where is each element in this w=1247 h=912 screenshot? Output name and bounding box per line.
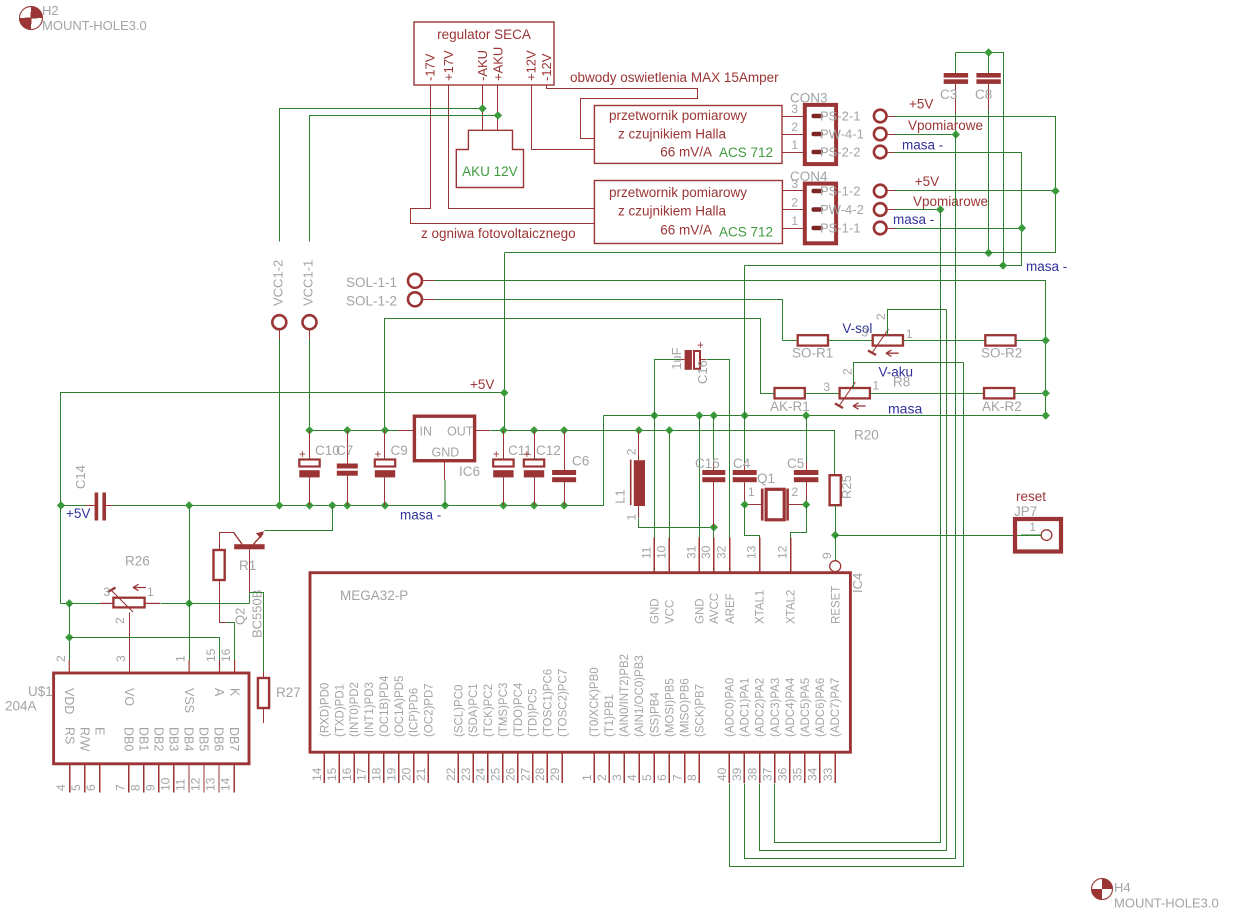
svg-text:24: 24 <box>474 767 488 781</box>
wire SO-R1 left <box>782 340 797 342</box>
svg-text:C5: C5 <box>787 456 804 471</box>
voltage regulator IC6 <box>414 416 474 461</box>
wire ADC0 net <box>775 210 941 843</box>
capacitor C9 <box>375 430 408 505</box>
svg-text:(ADC1)PA1: (ADC1)PA1 <box>740 678 752 737</box>
svg-text:(INT1)PD3: (INT1)PD3 <box>364 682 376 737</box>
MEGA32 pin 5 (SS)PB4 <box>640 692 661 784</box>
U$1 pin 13 DB6 <box>204 727 226 792</box>
svg-text:(AIN0/INT2)PB2: (AIN0/INT2)PB2 <box>619 654 631 737</box>
svg-text:3: 3 <box>610 774 624 781</box>
pad PS-1-1 <box>874 222 887 235</box>
wire +5V CON3 <box>505 117 1056 253</box>
svg-text:5: 5 <box>640 774 654 781</box>
wire V-aku to AK-R2 <box>870 393 984 395</box>
svg-text:(OC1B)PD4: (OC1B)PD4 <box>379 675 391 737</box>
svg-text:1: 1 <box>791 214 798 228</box>
MEGA32 pin 8 (SCK)PB7 <box>685 684 706 783</box>
svg-text:16: 16 <box>340 767 354 781</box>
svg-text:C9: C9 <box>391 443 408 458</box>
svg-text:+: + <box>524 449 531 461</box>
svg-text:1: 1 <box>791 138 798 152</box>
U$1 pin 3 VO <box>114 655 136 706</box>
junction rail C7 <box>343 426 351 434</box>
svg-text:K: K <box>227 688 241 697</box>
svg-text:GND: GND <box>432 446 460 460</box>
wire VDD column <box>69 603 71 660</box>
MEGA32 pin 37 (ADC3)PA3 <box>760 678 781 783</box>
MEGA32 pin 4 (AIN1/OC0)PB3 <box>625 655 646 783</box>
resistor AK-R1 <box>775 388 805 398</box>
svg-text:8: 8 <box>128 784 142 791</box>
svg-text:+AKU: +AKU <box>490 47 505 81</box>
junction rail C12 <box>530 426 538 434</box>
svg-text:AK-R2: AK-R2 <box>982 399 1022 414</box>
svg-text:29: 29 <box>548 767 562 781</box>
U$1 pin 7 DB0 <box>113 727 135 792</box>
MEGA32 pin 25 (TMS)PC3 <box>489 683 510 784</box>
svg-text:13: 13 <box>745 545 759 559</box>
svg-text:22: 22 <box>444 767 458 781</box>
svg-text:(TCK)PC2: (TCK)PC2 <box>483 684 495 737</box>
svg-text:4: 4 <box>625 774 639 781</box>
svg-text:+: + <box>375 449 382 461</box>
svg-text:IC4: IC4 <box>850 573 865 593</box>
pin numbers 3 2 1 (CON3) <box>791 102 798 152</box>
junction R26 left <box>65 599 73 607</box>
MEGA32 pin 15 (TXD)PD1 <box>325 684 346 783</box>
connector CON3 <box>805 105 836 164</box>
svg-text:3: 3 <box>114 655 128 662</box>
trimmer R26 <box>108 584 146 612</box>
junction rail C11 <box>499 426 507 434</box>
svg-text:+: + <box>493 449 500 461</box>
svg-text:AK-R1: AK-R1 <box>770 399 810 414</box>
svg-text:(T1)PB1: (T1)PB1 <box>604 694 616 737</box>
hall sensor box 1 <box>594 106 782 164</box>
wire R26 wiper to pin3 U1 <box>129 613 131 674</box>
MEGA32 pin 35 (ADC5)PA5 <box>791 678 812 783</box>
svg-text:(ADC7)PA7: (ADC7)PA7 <box>830 678 842 737</box>
junction Vpomiarowe CON4 <box>936 205 944 213</box>
svg-text:RS: RS <box>62 727 76 744</box>
svg-text:C15: C15 <box>695 456 720 471</box>
wire C14 left <box>61 505 86 507</box>
resistor AK-R2 <box>984 388 1014 398</box>
junction masa CON4 <box>1018 224 1026 232</box>
wire +5V left line <box>61 393 505 604</box>
wire SOL-1-1 net <box>435 281 1046 416</box>
junction VDD branch <box>65 633 73 641</box>
wire AK-R1 left <box>761 341 775 394</box>
inductor L1 <box>613 430 646 520</box>
svg-text:66 mV/A: 66 mV/A <box>660 223 712 238</box>
svg-text:(T0/XCK)PB0: (T0/XCK)PB0 <box>589 667 601 737</box>
wire +5V out rail <box>491 431 835 476</box>
junction C14 +5V <box>57 501 65 509</box>
svg-text:DB3: DB3 <box>167 727 181 751</box>
svg-text:3: 3 <box>103 585 110 599</box>
svg-text:9: 9 <box>143 784 157 791</box>
MEGA32 pin 3 (AIN0/INT2)PB2 <box>610 654 631 783</box>
svg-text:SOL-1-2: SOL-1-2 <box>346 294 397 309</box>
svg-text:C6: C6 <box>572 454 589 469</box>
svg-text:66 mV/A: 66 mV/A <box>660 145 712 160</box>
svg-text:reset: reset <box>1016 489 1046 504</box>
wire OUT stub <box>475 430 490 432</box>
wire +12V pin <box>532 85 595 150</box>
junction masa VCC1-2 <box>275 501 283 509</box>
svg-text:15: 15 <box>204 648 218 662</box>
svg-text:+12V: +12V <box>524 50 539 81</box>
svg-text:(SCL)PC0: (SCL)PC0 <box>453 685 465 737</box>
svg-text:PW-4-2: PW-4-2 <box>820 202 864 217</box>
capacitor C15 <box>702 416 725 528</box>
svg-text:(SS)PB4: (SS)PB4 <box>650 692 662 737</box>
wire VSS column <box>189 505 191 660</box>
wire C16 right to AREF <box>707 360 730 538</box>
wire VCC1-2 to -AKU <box>280 109 483 242</box>
wire Q2 emitter to masa <box>265 506 333 531</box>
mount hole H2 <box>20 3 147 33</box>
svg-text:7: 7 <box>113 784 127 791</box>
wire VCC1-1 to +5V rail <box>309 339 311 430</box>
U$1 pin 1 VSS <box>174 655 196 713</box>
junction masa IC6 <box>441 501 449 509</box>
junction masa C9 <box>381 501 389 509</box>
svg-text:C8: C8 <box>975 87 992 102</box>
svg-text:H4: H4 <box>1114 880 1131 895</box>
svg-text:DB7: DB7 <box>227 727 241 751</box>
junction AVCC <box>710 523 718 531</box>
capacitor C8 <box>975 53 1001 111</box>
svg-text:MEGA32-P: MEGA32-P <box>340 588 408 603</box>
capacitor C16 <box>669 340 710 384</box>
hall box2 pin stubs <box>782 191 804 229</box>
svg-text:19: 19 <box>384 767 398 781</box>
svg-text:C12: C12 <box>536 443 561 458</box>
svg-text:U$1: U$1 <box>28 684 53 699</box>
wire C8 to +5V line <box>988 110 990 253</box>
junction masa C11 <box>499 501 507 509</box>
resistor R1 <box>214 532 225 580</box>
pad SOL-1-1 <box>408 274 435 288</box>
junction rail VCC pin <box>665 426 673 434</box>
transistor Q2 <box>219 531 265 592</box>
U$1 pin 2 VDD <box>54 655 76 714</box>
wire SO-R1 to V-sol <box>828 340 873 342</box>
resistor R25 <box>830 475 841 505</box>
junction AK-R2 <box>1042 389 1050 397</box>
svg-text:9: 9 <box>820 552 834 559</box>
wire SO-R2 right <box>1016 340 1046 342</box>
svg-text:1: 1 <box>580 774 594 781</box>
mount hole H4 <box>1092 879 1219 911</box>
svg-text:JP7: JP7 <box>1014 504 1037 519</box>
svg-text:12: 12 <box>776 545 790 559</box>
wire masa to C4 <box>744 266 746 431</box>
wire V-sol to SO-R2 <box>903 340 985 342</box>
svg-text:+5V: +5V <box>470 377 494 392</box>
capacitor C10 <box>299 430 340 505</box>
junction masa C16 <box>650 411 658 419</box>
svg-text:MOUNT-HOLE3.0: MOUNT-HOLE3.0 <box>1114 896 1219 911</box>
svg-text:3: 3 <box>861 326 868 340</box>
capacitor C7 <box>336 430 358 505</box>
svg-text:VCC: VCC <box>665 600 677 624</box>
svg-text:VDD: VDD <box>62 688 76 714</box>
capacitor C3 <box>940 53 968 114</box>
wire GND pin 31 <box>699 416 701 538</box>
svg-text:2: 2 <box>54 655 68 662</box>
svg-text:masa -: masa - <box>1026 259 1067 274</box>
svg-text:masa -: masa - <box>893 212 934 227</box>
svg-text:PS-2-1: PS-2-1 <box>820 109 860 124</box>
junction C8 top <box>984 48 992 56</box>
svg-text:ACS 712: ACS 712 <box>719 145 773 160</box>
svg-text:(SDA)PC1: (SDA)PC1 <box>468 683 480 737</box>
junction -AKU <box>478 104 486 112</box>
pin numbers 3 2 1 (CON4) <box>791 177 798 228</box>
wire L1 to AVCC <box>639 519 714 528</box>
MEGA32 pin 14 (RXD)PD0 <box>310 683 331 784</box>
svg-text:R26: R26 <box>125 554 150 569</box>
wire AK-R2 right <box>1014 393 1045 395</box>
junction C8 bottom <box>984 249 992 257</box>
pad VCC1-1 <box>303 315 317 339</box>
MEGA32 pin 21 (OC2)PD7 <box>414 683 435 783</box>
pad PS-2-1 <box>874 110 887 123</box>
svg-text:25: 25 <box>489 767 503 781</box>
svg-text:Vpomiarowe: Vpomiarowe <box>908 118 983 133</box>
wire AK-R1 to V-aku <box>805 393 840 395</box>
junction VSS column <box>185 599 193 607</box>
wire IN stub <box>398 430 414 432</box>
svg-text:obwody oswietlenia MAX 15Amper: obwody oswietlenia MAX 15Amper <box>570 70 779 85</box>
svg-text:masa: masa <box>888 401 922 417</box>
MEGA32 pin 23 (SDA)PC1 <box>459 683 480 783</box>
svg-text:VCC1-2: VCC1-2 <box>271 260 286 306</box>
svg-text:DB5: DB5 <box>197 727 211 751</box>
svg-text:1: 1 <box>906 327 913 341</box>
svg-text:1: 1 <box>174 655 188 662</box>
svg-text:6: 6 <box>84 784 98 791</box>
svg-text:(TOSC1)PC6: (TOSC1)PC6 <box>543 669 555 737</box>
svg-text:16: 16 <box>219 648 233 662</box>
svg-text:8: 8 <box>685 774 699 781</box>
svg-text:AVCC: AVCC <box>709 593 721 624</box>
svg-text:(ICP)PD6: (ICP)PD6 <box>409 688 421 737</box>
svg-text:14: 14 <box>219 777 233 791</box>
svg-text:(MISO)PB6: (MISO)PB6 <box>680 678 692 737</box>
wire A pin net <box>70 638 220 661</box>
svg-text:2: 2 <box>791 196 798 210</box>
trimmer V-aku R8 <box>835 382 870 409</box>
capacitor C4 <box>733 431 757 505</box>
wire C16 left to masa <box>655 360 681 416</box>
svg-text:-12V: -12V <box>539 53 554 81</box>
MEGA32 pin 17 (INT1)PD3 <box>355 682 376 783</box>
MEGA32 pin 11 GND <box>639 537 661 624</box>
wire IC6 GND <box>444 461 446 480</box>
svg-text:VSS: VSS <box>182 688 196 713</box>
junction SO-R2 <box>1042 336 1050 344</box>
junction masa VSS <box>185 501 193 509</box>
svg-text:(TMS)PC3: (TMS)PC3 <box>498 683 510 737</box>
svg-text:R20: R20 <box>854 428 879 443</box>
svg-text:H2: H2 <box>42 3 59 18</box>
wire ADC1 net <box>760 310 947 851</box>
MEGA32 pin 10 VCC <box>654 537 676 624</box>
svg-text:DB6: DB6 <box>212 727 226 751</box>
wire masa CON4 <box>895 228 1022 230</box>
svg-text:27: 27 <box>518 767 532 781</box>
wire reset to JP7 <box>835 535 1041 537</box>
MEGA32 pin 36 (ADC4)PA4 <box>776 677 797 783</box>
svg-text:ACS 712: ACS 712 <box>719 225 773 240</box>
svg-text:CON3: CON3 <box>790 91 828 106</box>
wire XTAL1 to pin 13 <box>745 505 760 538</box>
pad PW-4-2 <box>874 203 887 216</box>
hall box1 pin stubs <box>782 117 805 153</box>
wire C3 to Vpomiarowe <box>955 113 957 135</box>
svg-text:C7: C7 <box>336 443 353 458</box>
svg-text:1: 1 <box>873 379 880 393</box>
svg-text:SO-R1: SO-R1 <box>792 346 833 361</box>
svg-text:37: 37 <box>760 767 774 781</box>
capacitor C11 <box>493 430 532 505</box>
trimmer V-sol R20 <box>868 329 903 356</box>
svg-text:(ADC3)PA3: (ADC3)PA3 <box>770 678 782 737</box>
capacitor C5 <box>794 416 819 505</box>
svg-text:BC550B: BC550B <box>250 590 265 638</box>
svg-text:(MOSI)PB5: (MOSI)PB5 <box>665 678 677 737</box>
svg-text:(ADC2)PA2: (ADC2)PA2 <box>755 678 767 737</box>
wire masa upper line <box>603 415 1045 417</box>
U$1 pin 12 DB5 <box>189 727 211 792</box>
svg-text:XTAL1: XTAL1 <box>755 590 767 624</box>
svg-text:5: 5 <box>69 784 83 791</box>
U$1 pin 5 R/W <box>69 727 91 792</box>
MEGA32 pin 12 XTAL2 <box>776 537 798 624</box>
svg-text:+5V: +5V <box>66 506 90 521</box>
svg-text:C14: C14 <box>73 465 88 489</box>
MEGA32 pin 40 (ADC0)PA0 <box>715 678 736 783</box>
svg-text:MOUNT-HOLE3.0: MOUNT-HOLE3.0 <box>42 18 147 33</box>
svg-text:17: 17 <box>355 767 369 781</box>
pad PW-4-1 <box>874 128 887 141</box>
wire base to R27 <box>250 593 264 673</box>
svg-text:+5V: +5V <box>915 174 939 189</box>
svg-text:(TDI)PC5: (TDI)PC5 <box>528 688 540 737</box>
svg-text:2: 2 <box>841 368 855 375</box>
MEGA32 pin 18 (OC1B)PD4 <box>370 675 391 783</box>
svg-text:CON4: CON4 <box>790 169 828 184</box>
svg-text:IN: IN <box>420 425 433 439</box>
resistor R27 <box>258 672 269 723</box>
svg-text:33: 33 <box>821 767 835 781</box>
svg-text:VO: VO <box>122 688 136 706</box>
svg-text:2: 2 <box>595 774 609 781</box>
svg-text:10: 10 <box>158 777 172 791</box>
MEGA32 pin 32 AREF <box>715 537 737 624</box>
wire masa horiz to label <box>745 265 1003 267</box>
svg-text:10: 10 <box>654 545 668 559</box>
svg-text:1: 1 <box>625 514 639 521</box>
wire R1 bottom to pin16 <box>219 580 221 623</box>
microcontroller IC4 MEGA32-P <box>310 573 850 753</box>
U$1 pin 14 DB7 <box>219 727 241 792</box>
wire Vpomiarowe CON3 <box>895 134 956 136</box>
wire solar IN net <box>385 319 761 431</box>
svg-text:AKU 12V: AKU 12V <box>462 164 518 179</box>
MEGA32 pin 31 GND <box>684 537 706 624</box>
svg-text:35: 35 <box>791 767 805 781</box>
junction masa C6 <box>560 501 568 509</box>
junction rail VCC1-1 <box>305 426 313 434</box>
svg-text:przetwornik pomiarowy: przetwornik pomiarowy <box>609 185 747 200</box>
svg-text:-AKU: -AKU <box>475 50 490 81</box>
MEGA32 pin 16 (INT0)PD2 <box>340 682 361 783</box>
MEGA32 pin 29 (TOSC2)PC7 <box>548 669 569 783</box>
junction +5V branch <box>500 389 508 397</box>
svg-text:z czujnikiem Halla: z czujnikiem Halla <box>618 204 727 219</box>
svg-text:VCC1-1: VCC1-1 <box>301 260 316 306</box>
junction masa C4 <box>741 411 749 419</box>
svg-text:11: 11 <box>639 546 653 559</box>
wire XTAL2 to pin 12 <box>791 505 807 538</box>
MEGA32 pin 34 (ADC6)PA6 <box>806 678 827 783</box>
svg-text:2: 2 <box>792 485 799 499</box>
svg-text:RESET: RESET <box>830 586 842 624</box>
svg-text:11: 11 <box>174 778 188 791</box>
wire VCC1-2 to masa rail <box>279 339 281 505</box>
svg-text:(OC2)PD7: (OC2)PD7 <box>424 683 436 737</box>
svg-text:R/W: R/W <box>77 727 91 752</box>
wire Q2 base <box>249 593 251 604</box>
MEGA32 pin 33 (ADC7)PA7 <box>821 678 842 783</box>
wire reset pin <box>835 535 837 561</box>
resistor SO-R1 <box>798 335 828 345</box>
svg-text:+: + <box>697 340 704 352</box>
U$1 pin 15 A <box>204 648 226 697</box>
svg-text:1uF: 1uF <box>669 347 684 369</box>
pad names CON3 <box>820 109 864 160</box>
svg-text:40: 40 <box>715 767 729 781</box>
wire R25 bottom <box>835 505 837 535</box>
svg-text:C3: C3 <box>940 87 957 102</box>
resistor SO-R2 <box>985 335 1015 345</box>
svg-text:R8: R8 <box>893 375 910 390</box>
wire ADC2 net <box>745 135 956 859</box>
MEGA32 pin 39 (ADC1)PA1 <box>730 678 751 783</box>
svg-text:(ADC6)PA6: (ADC6)PA6 <box>815 678 827 737</box>
svg-text:(TXD)PD1: (TXD)PD1 <box>334 684 346 737</box>
MEGA32 pin 22 (SCL)PC0 <box>444 685 465 784</box>
junction XTAL2 <box>802 500 810 508</box>
capacitor C14 <box>73 465 113 520</box>
wire ADC3 net <box>730 363 964 867</box>
wire +5V CON4 <box>895 190 1056 192</box>
svg-text:+17V: +17V <box>441 50 456 81</box>
svg-text:14: 14 <box>310 767 324 781</box>
svg-text:(ADC5)PA5: (ADC5)PA5 <box>800 678 812 737</box>
svg-text:AREF: AREF <box>725 593 737 624</box>
MEGA32 pin 1 (T0/XCK)PB0 <box>580 667 601 783</box>
pin labels V-aku <box>823 368 879 394</box>
svg-text:1: 1 <box>748 485 755 499</box>
svg-text:DB2: DB2 <box>152 727 166 751</box>
